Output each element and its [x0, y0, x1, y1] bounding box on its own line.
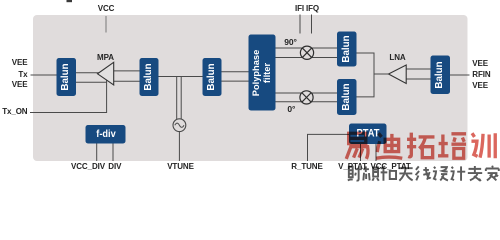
balun B5 text [342, 83, 352, 110]
label V_PTAT [338, 163, 367, 171]
balun B4 text [342, 35, 352, 62]
polyphase filter block [249, 35, 276, 111]
balun B3 text [207, 63, 217, 90]
wire balun1 to MPA upper [76, 72, 103, 74]
f-div block [86, 125, 126, 144]
label VEE bottom-right [472, 82, 488, 90]
label IFQ [306, 5, 319, 13]
wire balun1 to MPA lower [76, 81, 107, 83]
wire LNA to balun6 upper [407, 68, 431, 70]
watermark char she2 [433, 167, 448, 181]
label IFI [295, 5, 304, 13]
mixer M1 (90deg) [300, 46, 313, 59]
wire IFI stub [299, 15, 301, 34]
oscillator VCO [173, 119, 186, 132]
label VCC_PTAT [370, 163, 410, 171]
balun B5 [337, 79, 357, 115]
wire LNA to balun6 lower [407, 78, 431, 80]
label DIV [108, 163, 121, 171]
label VCC_DIV [71, 163, 105, 171]
wire polyphase to balun5 upper [276, 92, 338, 94]
wire Tx input [31, 74, 57, 76]
wire VCC stub [105, 16, 107, 33]
wire R_TUNE to PTAT [308, 134, 350, 161]
wire VCO drop left [176, 77, 178, 119]
wire VCO drop right [180, 77, 182, 119]
balun B2 text [144, 63, 154, 90]
wire balun3 to polyphase upper [222, 71, 249, 73]
wire Tx_ON enable [30, 79, 107, 113]
watermark char xun [471, 133, 495, 158]
watermark char xian [416, 166, 431, 180]
label 90deg [284, 38, 297, 47]
wire IFQ stub [311, 15, 313, 34]
label VCC [98, 5, 115, 13]
balun B2 [140, 58, 159, 96]
label 0deg [287, 104, 295, 113]
wire VTUNE [178, 132, 180, 161]
wire V_PTAT stub [360, 144, 362, 161]
label LNA [389, 54, 405, 62]
wire VCC_PTAT stub [375, 144, 377, 161]
watermark char tian [399, 168, 413, 181]
watermark char zhuan [468, 166, 482, 181]
balun B4 [337, 32, 357, 67]
label Tx [18, 71, 27, 79]
watermark gray characters [348, 166, 499, 181]
watermark char di [376, 133, 402, 158]
label VEE bottom-left [12, 81, 28, 89]
balun B1 text [61, 63, 71, 90]
wire MPA to balun2 upper [113, 70, 140, 72]
chip body [33, 15, 468, 161]
wire MPA to balun2 lower [113, 80, 140, 82]
label VEE top-left [12, 59, 28, 67]
watermark char pei [438, 134, 466, 158]
wire RFIN [450, 74, 470, 76]
label RFIN [472, 71, 490, 79]
amplifier LNA triangle [389, 65, 407, 84]
wire balun4 to LNA junction [357, 53, 375, 97]
watermark char ji [451, 166, 466, 180]
wire junction to LNA apex [374, 73, 389, 75]
wire polyphase to balun4 upper [276, 47, 338, 49]
balun B6 text [435, 61, 445, 88]
watermark char he [381, 166, 396, 181]
wire polyphase to balun5 lower [276, 101, 338, 103]
watermark char tuo [407, 133, 434, 158]
polyphase filter text [251, 49, 273, 96]
PTAT text [356, 128, 379, 139]
label Tx_ON [2, 108, 27, 116]
label R_TUNE [291, 163, 322, 171]
watermark char jia [486, 166, 499, 181]
mixer M2 (0deg) [300, 91, 313, 104]
balun B6 [431, 56, 451, 95]
balun B3 [203, 58, 222, 96]
balun B1 [57, 58, 77, 96]
label VEE top-right [472, 60, 488, 68]
label VTUNE [167, 163, 194, 171]
wire polyphase to balun4 lower [276, 57, 338, 59]
wire balun2 to balun3 [159, 76, 203, 78]
watermark char she [348, 167, 362, 181]
cropped mark top [67, 0, 73, 2]
amplifier MPA triangle [98, 62, 114, 85]
f-div text [96, 129, 116, 140]
wire f-div left stub [96, 144, 98, 162]
wire f-div right stub [112, 144, 114, 162]
PTAT block [349, 124, 387, 145]
watermark char yi [346, 133, 368, 159]
label MPA [97, 54, 114, 62]
watermark red characters [0, 0, 500, 185]
wire balun3 to polyphase lower [222, 80, 249, 82]
watermark char pin [363, 166, 379, 180]
